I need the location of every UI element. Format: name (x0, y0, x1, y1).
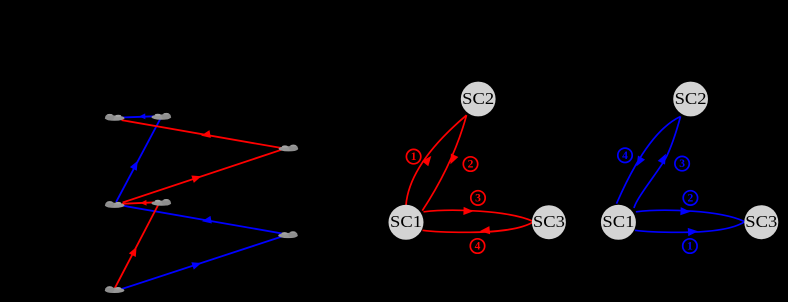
svg-text:2: 2 (688, 192, 694, 204)
svg-text:1: 1 (687, 241, 693, 253)
svg-text:3: 3 (475, 192, 481, 204)
svg-text:4: 4 (475, 241, 481, 253)
svg-text:SC3: SC3 (533, 212, 565, 231)
svg-text:1: 1 (411, 151, 417, 163)
svg-text:SC1: SC1 (602, 212, 634, 231)
svg-text:2: 2 (468, 159, 474, 171)
svg-text:SC2: SC2 (462, 89, 494, 108)
svg-text:SC2: SC2 (675, 89, 707, 108)
svg-text:4: 4 (622, 150, 628, 162)
svg-text:SC3: SC3 (745, 212, 777, 231)
svg-text:SC1: SC1 (390, 212, 422, 231)
svg-text:3: 3 (679, 158, 685, 170)
